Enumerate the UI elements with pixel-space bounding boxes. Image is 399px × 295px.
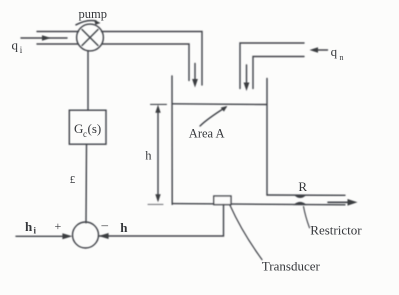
svg-text:(s): (s) (88, 121, 102, 136)
svg-text:£: £ (70, 174, 76, 186)
svg-text:i: i (34, 226, 37, 236)
svg-text:G: G (74, 121, 83, 136)
svg-text:R: R (298, 179, 307, 194)
svg-text:Transducer: Transducer (262, 259, 321, 274)
svg-text:Restrictor: Restrictor (310, 223, 362, 238)
svg-text:c: c (83, 129, 87, 139)
svg-text:i: i (20, 45, 23, 55)
svg-text:–: – (101, 217, 109, 232)
svg-text:h: h (120, 220, 128, 235)
svg-text:h: h (25, 219, 33, 234)
svg-text:+: + (55, 219, 62, 233)
svg-text:n: n (340, 53, 344, 62)
svg-text:h: h (145, 149, 152, 163)
svg-text:q: q (12, 37, 19, 52)
svg-text:q: q (331, 44, 338, 59)
svg-text:pump: pump (79, 7, 107, 21)
svg-text:Area A: Area A (189, 126, 225, 140)
